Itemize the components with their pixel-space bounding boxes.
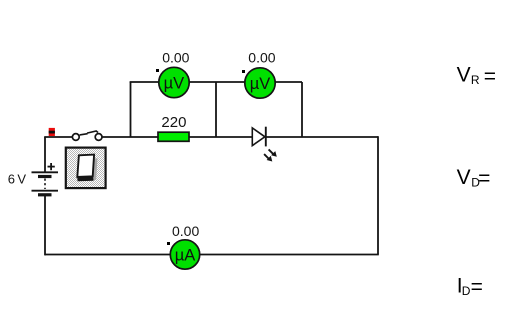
label VR =	[457, 64, 496, 88]
label ID=	[457, 274, 483, 298]
wire battery bottom vertical	[44, 196, 46, 255]
voltmeter U2 anchor dot	[242, 70, 245, 73]
rocker bottom lip	[77, 175, 94, 182]
wire right vertical	[377, 136, 379, 254]
voltmeter U2 (across diode)	[245, 68, 275, 98]
wire bottom horizontal	[45, 254, 379, 256]
ammeter U3	[170, 240, 199, 269]
svg-text:V: V	[457, 64, 471, 87]
svg-text:=: =	[478, 167, 490, 190]
svg-text:µA: µA	[175, 246, 196, 264]
rocker face	[77, 155, 94, 177]
LED arrow 2	[264, 154, 272, 161]
wire battery top vertical	[44, 137, 46, 172]
svg-text:V: V	[457, 166, 471, 189]
svg-text:µV: µV	[164, 75, 185, 93]
battery V1 6V	[32, 163, 59, 196]
voltmeter U1 (across resistor)	[159, 67, 189, 97]
resistor R1	[158, 132, 189, 141]
rocker shadow	[81, 158, 98, 180]
svg-text:0.00: 0.00	[172, 223, 199, 239]
svg-text:R: R	[471, 73, 480, 87]
svg-text:=: =	[484, 65, 496, 88]
switch S1 (open)	[72, 131, 102, 140]
wire voltmeter loop left stub	[130, 82, 132, 137]
LED arrow 1	[269, 149, 277, 156]
wire top-left horizontal (battery to switch)	[44, 136, 72, 138]
wire voltmeter loop middle stub	[215, 82, 217, 137]
switch actuator box	[66, 148, 106, 189]
label VD=	[457, 166, 491, 190]
svg-text:µV: µV	[250, 75, 271, 93]
svg-text:D: D	[462, 284, 471, 298]
svg-text:6V: 6V	[8, 171, 29, 186]
LED D1	[252, 127, 276, 162]
wire diode cathode to right corner	[266, 136, 378, 138]
wire voltmeter loop right stub	[301, 82, 303, 137]
node marker (red)	[49, 128, 55, 136]
svg-text:0.00: 0.00	[162, 49, 189, 65]
ammeter U3 anchor dot	[167, 242, 170, 245]
voltmeter U1 anchor dot	[156, 69, 159, 72]
svg-text:=: =	[471, 276, 483, 299]
wire voltmeter loop top run	[130, 81, 302, 83]
svg-text:0.00: 0.00	[248, 50, 275, 66]
svg-text:220: 220	[161, 114, 186, 131]
wire switch to diode anode	[102, 136, 253, 138]
